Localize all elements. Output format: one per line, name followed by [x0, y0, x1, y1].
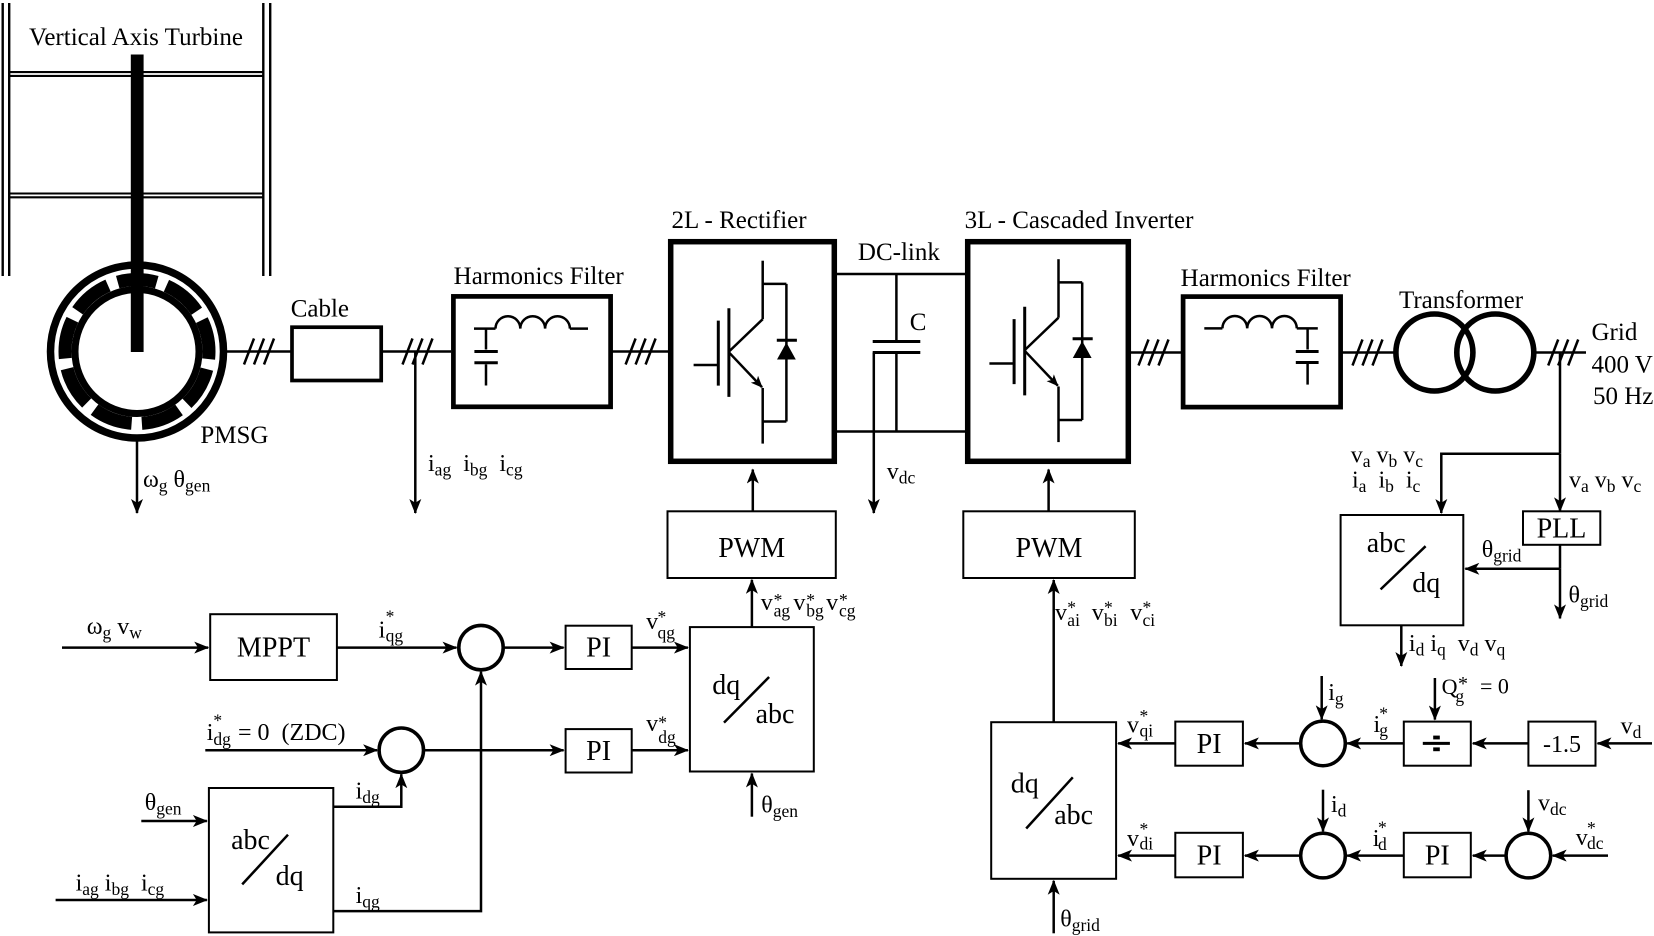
svg-text:PMSG: PMSG — [200, 422, 268, 449]
generator PMSG stator circle — [51, 265, 224, 438]
svg-text:PI: PI — [586, 736, 611, 767]
wire abc-dq output — [1400, 625, 1403, 666]
svg-text:dq: dq — [276, 861, 304, 892]
svg-text:DC-link: DC-link — [858, 239, 940, 266]
block MPPT — [210, 614, 337, 680]
wire DC-link positive rail — [836, 273, 966, 276]
wire PI dc to summing B — [1347, 854, 1404, 857]
three-phase marks — [244, 339, 274, 365]
wire Q*_g input — [1434, 678, 1437, 720]
svg-text:Vertical Axis Turbine: Vertical Axis Turbine — [29, 24, 243, 51]
wire i_abc generator input — [56, 899, 207, 902]
svg-text:dq: dq — [1011, 769, 1039, 800]
label Grid 400 V 50 Hz — [1592, 319, 1654, 410]
wire Transformer to Grid — [1534, 351, 1586, 354]
svg-text:Harmonics Filter: Harmonics Filter — [1181, 265, 1352, 292]
svg-text:PI: PI — [1425, 841, 1450, 872]
wire grid measurement drop — [1559, 353, 1562, 454]
svg-text:Cable: Cable — [291, 296, 349, 323]
wire -1.5 to divider — [1473, 742, 1529, 745]
divider symbol — [1423, 736, 1450, 752]
svg-text:Grid: Grid — [1592, 319, 1638, 346]
svg-text:va vb vc: va vb vc — [1569, 468, 1642, 497]
turbine shaft lower end — [131, 280, 144, 352]
wire Inverter to Filter 2 — [1131, 351, 1181, 354]
svg-text:-1.5: -1.5 — [1543, 732, 1581, 758]
wire v*_dc input — [1553, 854, 1608, 857]
block PLL — [1523, 511, 1600, 545]
wire divider to summing A — [1347, 742, 1404, 745]
wire v_dc input — [1527, 790, 1530, 831]
svg-text:PI: PI — [1197, 729, 1222, 760]
wire i_d input — [1322, 790, 1325, 832]
turbine strut bottom — [9, 194, 263, 198]
wire Filter to Rectifier — [611, 350, 668, 353]
generator PMSG rotor circle — [75, 290, 199, 414]
block Harmonics Filter 1 — [453, 296, 610, 406]
block Harmonics Filter 2 — [1183, 297, 1341, 408]
block Cable — [292, 327, 381, 380]
turbine blade left — [3, 3, 10, 276]
voltage measurement tap v_dc — [873, 353, 876, 514]
block divider — [1404, 722, 1471, 766]
wire sum1 to PI — [503, 646, 563, 649]
svg-text:dq: dq — [1412, 568, 1440, 599]
wire PI to dq-abc di — [1118, 854, 1175, 857]
wire PWM to inverter gate — [1047, 470, 1050, 512]
svg-text:50 Hz: 50 Hz — [1593, 383, 1653, 410]
svg-text:dq: dq — [712, 670, 740, 701]
svg-text:PI: PI — [586, 633, 611, 664]
summing junction 1 — [459, 625, 503, 669]
wire omega_g v_w input — [62, 646, 208, 649]
svg-text:PI: PI — [1197, 841, 1222, 872]
wire v_d input — [1598, 742, 1653, 745]
wire i*_dg input to summing junction 2 — [205, 749, 377, 752]
inductor L1 — [474, 316, 588, 328]
summing junction C — [1506, 833, 1551, 878]
wire DC-link negative rail — [836, 430, 966, 433]
turbine strut top — [9, 72, 263, 76]
block PI dc — [1404, 833, 1471, 878]
svg-text:PLL: PLL — [1537, 514, 1587, 545]
block PI qg — [566, 626, 632, 669]
wire PLL output — [1559, 545, 1562, 569]
wire Filter 2 to Transformer — [1341, 351, 1397, 354]
generator PMSG magnet ring — [65, 280, 209, 424]
three-phase marks — [1353, 340, 1383, 366]
svg-text:id iq vd vq: id iq vd vq — [1409, 631, 1506, 660]
block abc-dq grid — [1341, 515, 1464, 625]
wire theta_grid into dq-abc — [1052, 881, 1055, 934]
svg-text:400 V: 400 V — [1592, 352, 1653, 379]
wire theta_grid down — [1559, 569, 1562, 619]
speed and angle sensor arrow — [136, 441, 139, 513]
slash of abc-dq grid — [1381, 546, 1426, 589]
block gain -1.5 — [1528, 722, 1595, 766]
svg-text:PWM: PWM — [718, 533, 785, 564]
slash of abc-dq generator — [242, 835, 288, 885]
svg-text:3L - Cascaded Inverter: 3L - Cascaded Inverter — [965, 207, 1194, 234]
turbine shaft — [131, 55, 144, 281]
inductor L2 — [1204, 316, 1318, 328]
capacitor C DC-link — [873, 274, 921, 432]
wire branch to abc-dq measurements — [1441, 454, 1560, 513]
wire PI to dq-abc dg — [632, 749, 688, 752]
svg-text:Transformer: Transformer — [1399, 287, 1524, 314]
wire theta_gen into dq-abc — [751, 774, 754, 817]
wire into PLL — [1559, 454, 1562, 512]
svg-text:2L - Rectifier: 2L - Rectifier — [671, 207, 807, 234]
wire PMSG to Cable — [227, 350, 292, 353]
wire theta_gen input — [141, 820, 207, 823]
current measurement tap — [414, 352, 417, 514]
block 2L-Rectifier — [671, 242, 835, 462]
block PI qi — [1175, 722, 1243, 766]
wire PWM to rectifier gate — [752, 470, 755, 512]
summing junction A — [1301, 721, 1346, 766]
wire sum2 to PI — [424, 749, 564, 752]
wire Cable to Harmonics Filter — [381, 350, 451, 353]
wire summing C to PI dc — [1473, 854, 1506, 857]
svg-text:abc: abc — [1054, 800, 1093, 831]
transistor IGBT with antiparallel diode (inverter) — [989, 259, 1092, 442]
svg-text:= 0 (ZDC): = 0 (ZDC) — [238, 720, 346, 746]
svg-text:abc: abc — [756, 699, 795, 730]
three-phase marks — [403, 339, 433, 365]
wire MPPT to summing junction 1 — [337, 646, 457, 649]
svg-text:PWM: PWM — [1016, 533, 1083, 564]
svg-text:Harmonics Filter: Harmonics Filter — [454, 263, 625, 290]
svg-text:C: C — [910, 309, 927, 336]
transformer winding 1 — [1396, 314, 1473, 391]
block dq-abc grid side — [991, 722, 1116, 879]
capacitor C1 — [474, 329, 497, 386]
slash of dq-abc grid side — [1026, 777, 1073, 828]
wire summing A to PI qi — [1245, 742, 1299, 745]
wire v* to PWM rectifier — [751, 580, 754, 627]
three-phase marks — [626, 339, 656, 365]
block PI dg — [566, 729, 632, 772]
block abc-dq generator — [209, 788, 333, 932]
three-phase marks — [1548, 340, 1578, 366]
turbine blade right — [263, 3, 270, 276]
block dq-abc generator side — [690, 627, 814, 771]
block PWM rectifier — [668, 511, 836, 578]
block PWM inverter — [963, 511, 1135, 578]
wire PI to dq-abc qi — [1118, 742, 1175, 745]
wire PI to dq-abc — [632, 646, 688, 649]
wire v* to PWM inverter — [1052, 580, 1055, 722]
transformer winding 2 — [1457, 314, 1534, 391]
wire i_qg to summing junction 1 — [333, 672, 481, 912]
summing junction B — [1301, 833, 1346, 878]
block 3L-Cascaded Inverter — [968, 242, 1129, 462]
svg-text:abc: abc — [231, 825, 270, 856]
svg-text:MPPT: MPPT — [237, 632, 310, 663]
wire summing B to PI di — [1245, 854, 1299, 857]
wire i_g input — [1320, 676, 1323, 719]
three-phase marks — [1139, 340, 1169, 366]
svg-text:abc: abc — [1367, 528, 1406, 559]
capacitor C2 — [1296, 328, 1319, 384]
block PI di — [1175, 833, 1243, 878]
summing junction 2 — [379, 728, 423, 772]
wire i_dg to summing junction 2 — [333, 774, 401, 807]
slash of dq-abc generator side — [724, 677, 769, 723]
transistor IGBT with antiparallel diode (rectifier) — [694, 261, 797, 444]
wire theta_grid to abc-dq — [1465, 568, 1560, 571]
